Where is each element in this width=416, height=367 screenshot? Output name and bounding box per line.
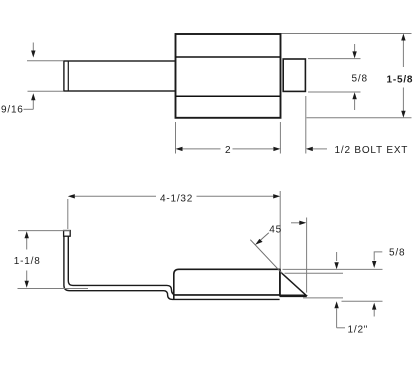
bracket arm top cap xyxy=(64,231,71,237)
dimension 5/8 (stub dia) xyxy=(308,44,361,110)
body left edge lower extension xyxy=(173,295,175,300)
svg-text:1-5/8: 1-5/8 xyxy=(387,74,414,85)
shaft (bolt shank) xyxy=(64,61,176,91)
svg-text:5/8: 5/8 xyxy=(389,248,405,259)
dimension 1-5/8 (overall dia) xyxy=(282,34,412,118)
chamfer triangle xyxy=(280,272,306,296)
svg-text:2: 2 xyxy=(225,145,231,156)
body right edge xyxy=(279,269,281,296)
chamfer bottom line xyxy=(280,295,307,297)
hex flat line lower xyxy=(176,95,281,97)
dimension 9/16 (shaft dia) xyxy=(24,43,64,110)
hex body xyxy=(176,34,281,118)
svg-text:1/2 BOLT EXT: 1/2 BOLT EXT xyxy=(335,145,409,156)
dimension 1/2 BOLT EXT xyxy=(306,96,327,154)
latch body xyxy=(174,269,280,295)
svg-text:1/2": 1/2" xyxy=(348,325,369,336)
svg-text:5/8: 5/8 xyxy=(352,73,368,84)
svg-text:4-1/32: 4-1/32 xyxy=(160,194,193,205)
bolt extension stub xyxy=(283,59,305,91)
svg-text:9/16: 9/16 xyxy=(1,105,24,116)
svg-text:45: 45 xyxy=(269,224,282,235)
dimension 5/8 (body height, bottom view) xyxy=(283,252,383,328)
shaft end chamfer line xyxy=(67,61,69,91)
dimension 2 (body length) xyxy=(176,122,281,154)
dimension 4-1/32 (overall length) xyxy=(68,191,280,268)
dimension 1-1/8 (arm height) xyxy=(18,231,89,289)
bracket sheet inner edge xyxy=(68,236,279,295)
dimension 45 degree chamfer xyxy=(250,240,282,274)
hex flat line upper xyxy=(176,56,281,58)
svg-text:1-1/8: 1-1/8 xyxy=(14,256,41,267)
chamfer tip extension line xyxy=(306,218,308,293)
bracket sheet outer edge xyxy=(64,236,280,299)
